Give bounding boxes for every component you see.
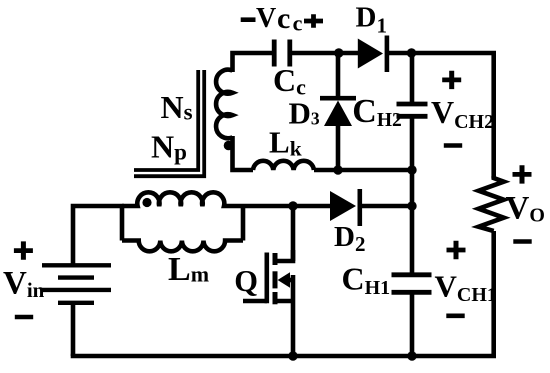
- gate lead: [243, 299, 267, 304]
- junction node at D3 anode / Lk: [333, 165, 342, 174]
- body arrow tail: [286, 278, 293, 283]
- wire: battery positive lead up and right to primary loop: [73, 206, 124, 265]
- winding Ns secondary (3 turns, bumps left): [216, 70, 232, 139]
- svg-text:Q: Q: [234, 264, 258, 298]
- source/body vertical: [291, 275, 296, 356]
- svg-text:Vin: Vin: [3, 266, 45, 303]
- label - of Vin: [15, 315, 33, 320]
- channel segment bottom: [273, 292, 278, 304]
- label + of VCH1: [447, 241, 466, 259]
- wire: Cc right plate to D1 anode: [292, 51, 360, 56]
- inductor Lm (4 arcs, bumps down): [122, 241, 243, 252]
- svg-text:VCH1: VCH1: [435, 269, 497, 307]
- wire: top wire from secondary winding top to Cc left plate: [233, 53, 273, 72]
- wire: primary top node to D2 anode: [243, 204, 332, 209]
- wire: bottom of resistor VO down to bottom rail: [491, 231, 496, 356]
- junction node at Lk / bus: [407, 165, 416, 174]
- svg-text:VCH2: VCH2: [431, 94, 494, 133]
- gate bar: [264, 253, 269, 304]
- svg-text:D3: D3: [289, 95, 320, 130]
- wire: D3 cathode branch from top wire down to D3 bar: [336, 53, 341, 100]
- wire: D3 anode down to Lk output wire: [336, 124, 341, 170]
- body arrow head of Q: [278, 272, 290, 287]
- junction node at D2 cathode / bus: [407, 201, 416, 210]
- label - of VCH1: [446, 314, 464, 319]
- transformer core (double L lines): [134, 70, 204, 176]
- label + of VO: [513, 165, 532, 183]
- transistor Q (MOSFET): [243, 250, 293, 356]
- wire: node at D2 anode down to MOSFET drain: [291, 206, 296, 261]
- channel segment middle: [273, 271, 278, 288]
- polarity dot on Np winding: [142, 198, 151, 207]
- label - of VCH2: [444, 143, 462, 148]
- channel segment top: [273, 253, 278, 265]
- svg-text:D2: D2: [334, 221, 365, 256]
- svg-text:Ns: Ns: [161, 89, 193, 125]
- wire: Lk output to center bus: [314, 168, 412, 173]
- svg-text:VO: VO: [506, 191, 545, 227]
- label + of VCH2: [442, 71, 461, 89]
- wire: center bus from CH1 bottom plate down to bottom rail: [410, 294, 415, 356]
- battery Vin plates: [42, 265, 111, 303]
- label - of VO: [513, 239, 531, 244]
- polarity dot on Ns winding: [224, 141, 234, 151]
- svg-text:c: c: [293, 10, 303, 35]
- source lead: [275, 299, 293, 304]
- wire: center bus from top wire down to CH2 top plate: [410, 53, 415, 103]
- winding Np primary (4 turns, bumps up): [122, 192, 243, 206]
- svg-text:V: V: [256, 3, 276, 34]
- svg-text:D1: D1: [356, 1, 387, 37]
- wire: D1 cathode to top-right corner, down right side to resistor: [387, 53, 494, 178]
- diode D1: [358, 36, 387, 73]
- inductor Lk (3 arcs): [253, 161, 314, 170]
- wire: D2 cathode to center bus: [361, 204, 414, 209]
- svg-text:CH1: CH1: [342, 261, 391, 300]
- diode D3 (pointing up): [320, 98, 356, 126]
- capacitor CH1 plates: [392, 275, 432, 293]
- svg-text:Cc: Cc: [273, 62, 306, 100]
- wire: primary loop right vertical: [241, 204, 246, 241]
- junction node at CH1 / bottom rail: [407, 351, 416, 360]
- junction node at Cc/D1: [334, 48, 343, 57]
- wire: primary loop left vertical: [120, 204, 125, 241]
- wire: secondary winding bottom lead down and right to Lk: [233, 136, 254, 170]
- capacitor CH2 plates: [397, 104, 428, 116]
- junction node at D1 cathode / bus top: [407, 48, 416, 57]
- label -Vcc+ plus sign: [304, 14, 323, 28]
- svg-text:c: c: [277, 2, 290, 35]
- svg-text:CH2: CH2: [352, 93, 401, 131]
- capacitor Cc plates: [274, 40, 290, 67]
- junction node at D2 anode: [288, 201, 297, 210]
- junction node at MOSFET source / bottom rail: [288, 351, 297, 360]
- wire: battery negative lead down to bottom rail: [71, 303, 76, 356]
- wire: center bus from CH2 bottom plate down to CH1 top plate: [410, 118, 415, 274]
- svg-text:Np: Np: [151, 129, 187, 165]
- wire: bottom rail: [71, 354, 496, 359]
- resistor VO zigzag: [479, 176, 504, 231]
- diode D2: [330, 189, 360, 226]
- label -Vcc+ minus sign: [241, 17, 256, 22]
- drain lead: [275, 250, 293, 261]
- svg-text:Lm: Lm: [168, 251, 209, 288]
- label + of Vin: [14, 241, 33, 259]
